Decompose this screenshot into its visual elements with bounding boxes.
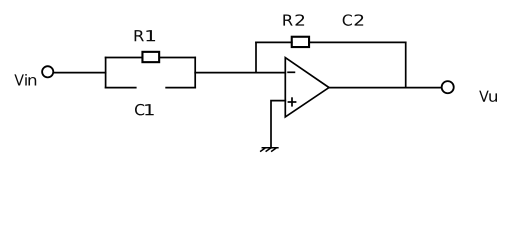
wire to inverting input: [195, 72, 285, 74]
terminal Vin: [42, 66, 53, 77]
node left junction of R1/C1: [105, 58, 107, 88]
wire output: [329, 87, 441, 89]
wire top branch right: [160, 57, 195, 59]
label Vu: [479, 91, 497, 102]
wire noninverting input to ground: [271, 101, 285, 148]
node right junction of R1/C1: [194, 58, 196, 88]
wire feedback down to output: [405, 42, 407, 87]
capacitor C1 right plate: [166, 87, 195, 89]
label R1: [135, 30, 156, 41]
resistor R1: [142, 52, 159, 62]
terminal Vu: [442, 81, 454, 93]
wire feedback C2 branch: [310, 41, 406, 43]
wire top branch left: [106, 57, 143, 59]
wire feedback riser: [255, 42, 257, 72]
op-amp inverting input marker: [288, 71, 294, 73]
op-amp U1: [285, 58, 329, 117]
capacitor C1 left plate: [106, 87, 136, 89]
op-amp noninverting input marker: [288, 98, 295, 106]
wire feedback to R2: [256, 41, 292, 43]
label C2: [343, 14, 364, 26]
label R2: [283, 14, 304, 25]
label Vin: [14, 74, 36, 86]
resistor R2: [292, 37, 309, 47]
ground: [261, 148, 278, 151]
label C1: [135, 104, 154, 116]
wire input to parallel network: [54, 72, 105, 74]
